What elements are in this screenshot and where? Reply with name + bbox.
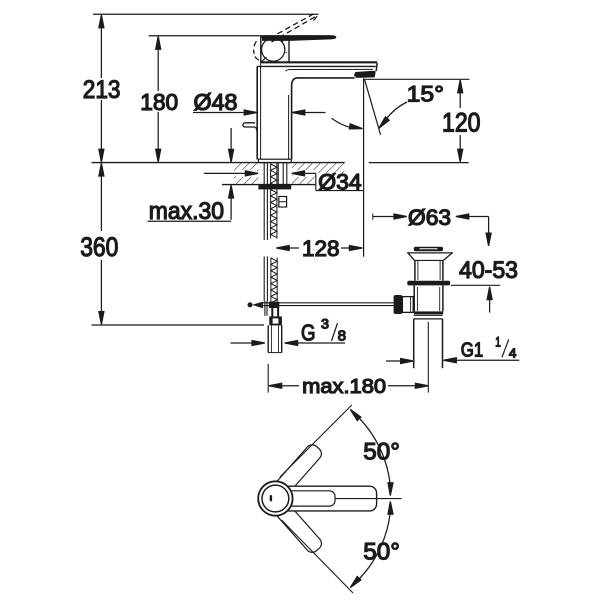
svg-text:8: 8 [338,328,347,345]
rod guide fitting [279,197,287,208]
threaded shank upper segment [271,163,277,239]
mounting nut under counter [258,185,291,190]
svg-text:213: 213 [83,76,121,104]
drain body [414,285,443,311]
pop-up rod lower segment [264,257,267,302]
svg-text:15°: 15° [407,81,444,106]
pop-up rod lower guide [265,301,267,316]
svg-text:Ø48: Ø48 [194,89,238,115]
top view: diagonal line upper [280,405,352,477]
dimension Ø48 with leader arrows [193,89,326,115]
svg-text:120: 120 [442,107,481,137]
svg-text:50°: 50° [363,438,400,465]
top view: center mark [270,495,272,501]
svg-text:max.30: max.30 [149,198,224,225]
drain coupling ring [414,315,443,319]
countertop bottom surface line [222,184,316,186]
top view: handle inner [283,491,335,506]
svg-text:max.180: max.180 [302,375,386,398]
countertop hatched section right [292,163,345,184]
drain lever knob [394,295,414,314]
top view: diagonal line lower [282,520,354,593]
supply pipe [268,325,282,352]
svg-text:50°: 50° [363,538,400,565]
drain collar [407,253,453,261]
spout top rear edge [260,61,377,63]
dimension 120 [442,80,481,162]
wire top extension line 213 [93,13,319,15]
svg-text:3: 3 [321,316,329,332]
rod clevis block [269,302,279,308]
aerator [354,71,376,78]
svg-text:1: 1 [495,335,501,350]
dimension 180 [140,36,178,162]
shank through counter [264,163,287,185]
white clearance for dimension arrows in hatch [236,170,257,177]
dimension max.180 [269,375,428,398]
top view: body circle [258,481,292,515]
drain flange [407,281,450,286]
faucet lever bar (side view) [262,35,336,41]
top view: rotated handle lower [273,501,324,555]
wire top extension line 180 [149,35,262,37]
faucet base flange [258,159,291,162]
dimension 360 [80,163,118,324]
top view: 50 deg arc lower [348,501,393,589]
drain neck [415,260,443,280]
white box for Ø34 label [316,173,363,191]
svg-text:40-53: 40-53 [459,257,518,284]
120 bottom reference line [369,162,469,164]
dimension Ø34 with box [204,170,364,195]
top view: centerline [335,498,402,500]
linkage rod ball end [248,302,253,307]
drain pop-up waste: cap [414,247,443,252]
dimension Ø63 [373,205,491,246]
max.180 left extension line [267,364,269,393]
dimension 40-53 [451,257,518,313]
svg-text:G1: G1 [461,339,484,362]
360 bottom reference line [92,324,265,326]
svg-text:4: 4 [509,346,517,360]
drain center line [427,322,429,393]
pop-up rod upper segment [264,189,267,240]
countertop hatched section left [234,163,258,184]
svg-text:360: 360 [80,232,118,262]
120 top reference line [365,78,469,80]
15 deg stream vertical reference line [363,78,365,256]
svg-text:Ø63: Ø63 [408,205,451,230]
15 deg tilted stream line [364,79,380,135]
15 deg label leader arrow [377,102,407,130]
countertop top surface line [92,162,345,164]
pop-up rod knob on body [243,123,257,134]
svg-text:Ø34: Ø34 [318,170,361,195]
top view: rotated handle upper [273,442,324,496]
dimension max.30 [148,128,234,225]
lever pivot housing [261,37,289,62]
top view: handle outer [279,486,377,511]
dashed raised lever [254,14,319,62]
svg-text:128: 128 [302,236,340,261]
top view: 50 deg arc upper [348,408,393,496]
horizontal pop-up linkage rod [263,303,394,306]
svg-text:180: 180 [140,89,178,115]
dimension 128 [276,236,362,261]
faucet body and spout outline [257,63,377,159]
supply connection nut [269,316,282,325]
linkage rod cone joint [252,302,263,309]
dimension 213 [83,15,121,162]
cartridge ball inside housing [261,38,286,62]
dimension G1 1/4 [386,335,519,364]
drain tailpipe [414,319,443,368]
dimension G3/8 [231,316,347,346]
svg-text:G: G [301,320,316,346]
15 deg angle arc with arrow [332,118,363,131]
shank stub [272,308,278,316]
threaded shank lower segment [271,257,277,306]
